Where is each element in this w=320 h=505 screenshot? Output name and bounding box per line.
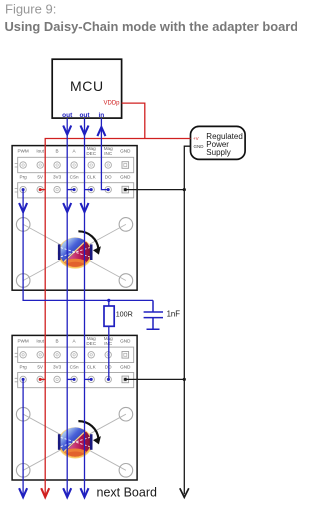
wire CSn: MCU out to boards — [66, 118, 68, 494]
svg-text:100R: 100R — [116, 310, 133, 319]
junction dot CSn pad board 2 — [73, 378, 76, 381]
svg-text:out: out — [79, 112, 90, 119]
wire Prg board 1 to 100R — [23, 190, 153, 301]
wire stub CLK board 1 — [85, 189, 92, 191]
svg-text:GND: GND — [194, 144, 205, 149]
arrowhead DO into MCU — [97, 127, 105, 136]
regulated power supply PS1 — [191, 126, 246, 159]
junction dot CLK pad board 1 — [90, 188, 93, 191]
junction dot CSn pad board 1 — [73, 188, 76, 191]
wire Prg board 2 to next board — [22, 379, 24, 494]
junction dot GND rail board 2 — [183, 378, 186, 381]
arrowhead CLK to next board — [81, 488, 89, 497]
wire GND board 1 — [125, 189, 184, 191]
wire VDDp: MCU to +V rail — [122, 103, 145, 138]
arrowhead CLK below MCU — [81, 126, 89, 135]
wire GND board 2 — [125, 378, 184, 380]
junction dot DO pad board 1 — [107, 188, 110, 191]
arrowhead Prg to next board — [19, 488, 27, 497]
junction dot GND pad board 1 — [124, 188, 127, 191]
arrowhead CSn below MCU — [63, 126, 71, 135]
junction dot 5V pad board 2 — [39, 378, 42, 381]
svg-text:Figure 9:: Figure 9: — [5, 1, 56, 16]
svg-text:in: in — [99, 112, 105, 119]
capacitor C1 1nF — [144, 300, 163, 329]
arrowhead Prg inside board 1 — [19, 203, 27, 212]
svg-text:Supply: Supply — [206, 148, 230, 157]
svg-text:VDDp: VDDp — [103, 101, 120, 107]
junction dot DO pad board 2 — [107, 378, 110, 381]
wire stub CSn board 2 — [67, 378, 74, 380]
wire stub 5V board 2 — [40, 378, 45, 380]
arrowhead GND to next board — [180, 488, 189, 497]
wire stub CSn board 1 — [67, 189, 74, 191]
arrowhead CSn inside board 1 — [63, 203, 71, 212]
svg-text:+V: +V — [193, 136, 199, 141]
junction dot GND rail board 1 — [183, 188, 186, 191]
junction dot Prg pad board 1 — [22, 188, 25, 191]
junction dot CLK pad board 2 — [90, 378, 93, 381]
junction dot 5V pad board 1 — [39, 188, 42, 191]
arrowhead +V to next board — [41, 488, 49, 497]
wire GND rail: supply to boards and next board — [184, 146, 190, 494]
wire CLK: MCU out to boards — [84, 118, 86, 494]
svg-text:out: out — [62, 112, 73, 119]
MCU U1 — [52, 59, 121, 119]
wire stub 5V board 1 — [40, 189, 45, 191]
arrowhead CLK inside board 1 — [81, 203, 89, 212]
adapter board 2 — [12, 335, 137, 480]
wire DO board 1 to MCU in — [101, 118, 108, 190]
svg-text:next Board: next Board — [97, 485, 158, 499]
wire +V rail: supply to 5V pins and next board — [45, 139, 190, 495]
svg-text:1nF: 1nF — [167, 310, 181, 319]
junction dot GND pad board 2 — [124, 378, 127, 381]
junction dot Prg pad board 2 — [22, 378, 25, 381]
junction dot 100R tap — [107, 299, 110, 302]
svg-text:MCU: MCU — [70, 78, 104, 94]
wire stub CLK board 2 — [85, 378, 92, 380]
svg-text:Using Daisy-Chain mode with th: Using Daisy-Chain mode with the adapter … — [5, 19, 298, 34]
arrowhead CSn to next board — [63, 488, 71, 497]
adapter board 1 — [12, 146, 137, 291]
resistor R1 100R — [108, 300, 110, 306]
